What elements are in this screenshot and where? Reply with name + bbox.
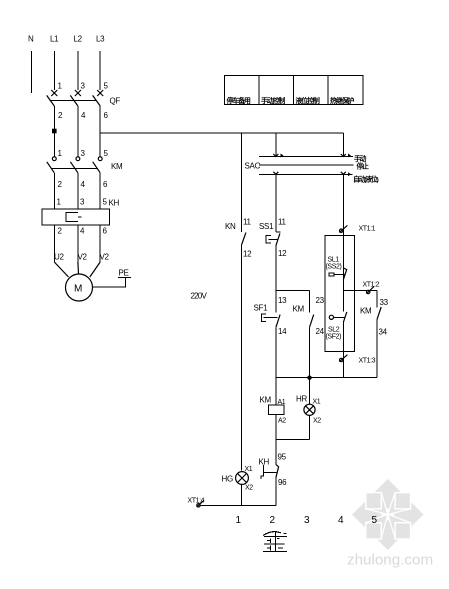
label position manual: [354, 154, 367, 163]
contactor KM main: [47, 157, 123, 173]
svg-text:11: 11: [278, 218, 287, 227]
wire KM aux down: [309, 327, 311, 377]
svg-text:(SF2): (SF2): [326, 334, 342, 341]
pin 5 KM: [104, 149, 109, 158]
wire L1 drop: [53, 51, 55, 90]
svg-text:X2: X2: [313, 418, 321, 425]
svg-text:KM: KM: [293, 305, 305, 314]
svg-text:KM: KM: [260, 396, 272, 405]
wire KH to motor pole1: [53, 225, 55, 262]
selector SAC feed wire b: [342, 133, 344, 157]
tank level sketch: [263, 532, 287, 552]
svg-text:L3: L3: [96, 35, 105, 44]
wire motor lead mid: [77, 262, 80, 274]
wire KN to HG: [241, 245, 243, 471]
svg-text:X1: X1: [245, 466, 253, 473]
pin 5 QF: [104, 82, 109, 91]
svg-text:X2: X2: [245, 485, 253, 492]
svg-text:34: 34: [379, 328, 388, 337]
svg-text:停止: 停止: [357, 162, 370, 171]
watermark logo: [352, 479, 424, 550]
svg-text:SF1: SF1: [254, 304, 269, 313]
svg-text:手动控制: 手动控制: [261, 96, 285, 105]
svg-text:SL2: SL2: [328, 327, 340, 334]
svg-text:23: 23: [316, 296, 325, 305]
wire SAC to SS1: [275, 174, 277, 232]
pin 4 KM: [81, 180, 86, 189]
wire L3 drop: [99, 51, 101, 90]
svg-text:A2: A2: [278, 418, 286, 425]
pin 3 QF: [81, 82, 86, 91]
lamp HG: [222, 472, 249, 485]
svg-text:33: 33: [380, 298, 389, 307]
pin A2 KM coil: [278, 418, 286, 425]
svg-text:11: 11: [243, 218, 252, 227]
lamp HR: [296, 395, 315, 416]
svg-text:HG: HG: [222, 475, 233, 484]
label position stop: [357, 162, 370, 171]
pin 96 KH: [278, 478, 287, 487]
breaker QF: [47, 90, 121, 106]
wire QF to KM pole1: [53, 106, 55, 157]
terminal XT1:4: [188, 498, 205, 508]
pin 34 KM aux2: [379, 328, 388, 337]
svg-text:KM: KM: [111, 162, 123, 171]
svg-text:zhulong.com: zhulong.com: [347, 552, 433, 569]
pin 13 SF1: [278, 296, 287, 305]
pin 1 KH: [57, 198, 62, 207]
watermark text: [347, 552, 433, 569]
svg-text:PE: PE: [119, 269, 129, 278]
label terminal row 1: [236, 515, 242, 526]
wire L2 drop: [77, 51, 79, 90]
svg-text:M: M: [74, 284, 82, 295]
node W2: [100, 253, 110, 262]
wire KH to bus: [275, 478, 277, 506]
svg-text:N: N: [28, 35, 34, 44]
svg-text:XT1:1: XT1:1: [359, 226, 376, 233]
float switch SL2: [326, 312, 347, 341]
svg-text:KH: KH: [109, 199, 120, 208]
wire N: [30, 51, 32, 93]
label terminal row 2: [270, 515, 276, 526]
svg-text:220V: 220V: [191, 292, 208, 301]
wire motor lead left: [54, 262, 68, 277]
pin X1 HG: [245, 466, 253, 473]
svg-text:V2: V2: [100, 253, 110, 262]
wire to KH contact: [275, 440, 277, 465]
svg-text:QF: QF: [110, 97, 121, 106]
contact KM aux seal-in: [293, 305, 314, 328]
pin 11 SS1: [278, 218, 287, 227]
svg-text:KM: KM: [360, 307, 372, 316]
pin 2 QF: [58, 111, 63, 120]
svg-text:4: 4: [338, 515, 344, 526]
wire SL1 to SL2: [342, 291, 344, 312]
svg-text:12: 12: [278, 249, 287, 258]
svg-text:SS1: SS1: [259, 222, 274, 231]
svg-text:XT1:2: XT1:2: [363, 282, 380, 289]
svg-text:(SS2): (SS2): [326, 264, 342, 271]
svg-text:KN: KN: [225, 222, 236, 231]
wire SS1 to node: [275, 246, 277, 313]
wire HG to bus: [241, 484, 243, 505]
svg-text:13: 13: [278, 296, 287, 305]
pin 14 SF1: [278, 327, 287, 336]
svg-text:24: 24: [316, 327, 325, 336]
pushbutton SS1: [259, 222, 280, 246]
contact KM aux auto seal: [360, 291, 381, 378]
wire KM to KH pole1: [53, 173, 55, 209]
svg-text:2: 2: [270, 515, 276, 526]
wire HR down: [309, 415, 311, 439]
node U2: [54, 253, 64, 262]
wire QF to KM pole3: [99, 106, 101, 157]
svg-text:1: 1: [236, 515, 242, 526]
junction dot pole1: [52, 129, 57, 134]
svg-text:96: 96: [278, 478, 287, 487]
pin 4 QF: [81, 111, 86, 120]
wire HR drop: [309, 378, 311, 405]
wire join coil lamp: [276, 439, 310, 441]
wire auto branch: [342, 174, 344, 290]
wire control rail left: [241, 133, 243, 232]
wire KM to KH pole3: [99, 173, 101, 209]
wire branch KM aux drop: [309, 291, 311, 313]
wire bottom bus: [200, 505, 276, 507]
pin 5 KH: [103, 198, 108, 207]
svg-text:XT1:4: XT1:4: [188, 498, 205, 505]
label terminal row 5: [372, 515, 378, 526]
svg-text:热继保护: 热继保护: [330, 96, 354, 105]
node L3 label: [96, 35, 105, 44]
pin 6 QF: [104, 111, 109, 120]
label 220V: [191, 292, 208, 301]
node L2 label: [74, 35, 83, 44]
svg-text:X1: X1: [313, 399, 321, 406]
svg-text:SAC: SAC: [245, 162, 261, 171]
wire motor lead right: [90, 262, 100, 277]
wire control feed: [100, 132, 343, 134]
legend table: [224, 75, 362, 105]
terminal XT1:2: [363, 282, 380, 294]
pin X2 HG: [245, 485, 253, 492]
svg-text:手动: 手动: [354, 154, 367, 163]
svg-text:SL1: SL1: [328, 257, 340, 264]
wire SF1 down: [275, 327, 277, 405]
wire SL2 down: [342, 322, 344, 378]
label position auto: [353, 174, 378, 183]
pin 12 KN: [243, 250, 252, 259]
node PE: [118, 269, 131, 278]
pin 12 SS1: [278, 249, 287, 258]
svg-text:5: 5: [372, 515, 378, 526]
thermal contact KH: [259, 458, 279, 480]
pin 6 KH: [103, 227, 108, 236]
svg-text:液位控制: 液位控制: [296, 96, 320, 105]
svg-text:HR: HR: [296, 395, 307, 404]
svg-text:XT1:3: XT1:3: [359, 358, 376, 365]
wire KH to motor pole2: [77, 225, 79, 262]
selector switch SAC: [245, 154, 354, 177]
terminal XT1:3: [339, 355, 375, 365]
wire KH to motor pole3: [99, 225, 101, 262]
svg-text:U2: U2: [54, 253, 64, 262]
svg-text:95: 95: [278, 453, 287, 462]
pin 95 KH: [278, 453, 287, 462]
pin 2 KH: [58, 227, 63, 236]
svg-text:停车备用: 停车备用: [227, 96, 251, 105]
wire SL1 to tap: [342, 280, 344, 291]
wire tap to XT1:2: [343, 290, 377, 292]
relay contact KN: [225, 222, 246, 245]
pin X2 HR: [313, 418, 321, 425]
pin 6 KM: [103, 180, 108, 189]
pin X1 HR: [313, 399, 321, 406]
wire QF to KM pole2: [77, 106, 79, 157]
coil KM: [260, 396, 285, 415]
pin 23 KM aux: [316, 296, 325, 305]
wire KM coil down: [275, 415, 277, 440]
label terminal row 3: [304, 515, 310, 526]
wire bottom bus of branches: [276, 377, 377, 379]
pushbutton SF1: [254, 304, 281, 328]
terminal XT1:1: [339, 225, 375, 232]
pin 11 KN: [243, 218, 252, 227]
float switch SL1: [326, 257, 347, 280]
svg-text:L2: L2: [74, 35, 83, 44]
node L1 label: [50, 35, 59, 44]
node V2: [78, 253, 88, 262]
junction dot HR tap: [307, 376, 311, 380]
svg-text:3: 3: [304, 515, 310, 526]
pin 3 KH: [80, 198, 85, 207]
svg-text:A1: A1: [278, 399, 286, 406]
label terminal row 4: [338, 515, 344, 526]
svg-text:V2: V2: [78, 253, 88, 262]
pin 1 KM: [58, 149, 63, 158]
svg-text:12: 12: [243, 250, 252, 259]
selector SAC feed wire a: [275, 133, 277, 157]
pin 2 KM: [58, 180, 63, 189]
wire PE to motor: [92, 277, 125, 287]
wire parallel branch top: [276, 290, 310, 292]
motor M: [66, 274, 93, 301]
pin 24 KM aux: [316, 327, 325, 336]
node N label: [28, 35, 34, 44]
wire KM to KH pole2: [77, 173, 79, 209]
pin 3 KM: [81, 149, 86, 158]
svg-text:自动(液位): 自动(液位): [353, 174, 378, 183]
svg-text:L1: L1: [50, 35, 59, 44]
float switch box: [325, 235, 355, 351]
pin 1 QF: [58, 82, 63, 91]
pin A1 KM coil: [278, 399, 286, 406]
svg-text:14: 14: [278, 327, 287, 336]
thermal relay KH: [42, 199, 120, 225]
pin 4 KH: [80, 227, 85, 236]
pin 33 KM aux2: [380, 298, 389, 307]
